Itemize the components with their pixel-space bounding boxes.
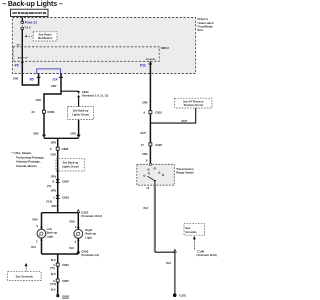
svg-text:C807: C807 xyxy=(62,279,69,283)
svg-text:GRN: GRN xyxy=(13,78,19,81)
svg-text:(*1): (*1) xyxy=(47,184,52,188)
svg-text:7.5 A: 7.5 A xyxy=(24,26,30,30)
svg-text:BLK: BLK xyxy=(166,262,171,265)
svg-text:See Back-up: See Back-up xyxy=(73,109,89,113)
svg-text:See: See xyxy=(185,226,190,230)
svg-text:HOT IN ON (II) AND START (III): HOT IN ON (II) AND START (III) xyxy=(13,12,47,15)
svg-text:C831: C831 xyxy=(62,263,69,267)
svg-text:GRN: GRN xyxy=(51,85,57,88)
svg-text:Transmission: Transmission xyxy=(176,167,194,171)
svg-text:REVERSE: REVERSE xyxy=(146,59,156,61)
svg-text:GRN: GRN xyxy=(51,205,57,208)
svg-text:BLK: BLK xyxy=(144,207,149,210)
svg-text:C896: C896 xyxy=(62,147,69,151)
svg-text:(Terminals 13-24): (Terminals 13-24) xyxy=(196,254,217,257)
svg-text:Box: Box xyxy=(198,28,204,32)
svg-text:BLK: BLK xyxy=(51,289,56,292)
svg-text:GRN: GRN xyxy=(51,141,57,144)
svg-text:24: 24 xyxy=(32,110,36,114)
svg-text:GRN: GRN xyxy=(142,101,148,104)
svg-text:Position Circuit: Position Circuit xyxy=(184,103,203,107)
svg-text:BLK: BLK xyxy=(51,259,56,262)
svg-text:Light: Light xyxy=(85,235,92,239)
svg-text:GRN: GRN xyxy=(51,154,57,157)
svg-text:17: 17 xyxy=(141,143,145,147)
svg-text:C806: C806 xyxy=(47,110,54,114)
svg-text:GRN: GRN xyxy=(51,175,57,178)
svg-text:(Terminals 5, 8, 11, 12): (Terminals 5, 8, 11, 12) xyxy=(82,94,109,97)
svg-text:(*5): (*5) xyxy=(50,266,55,270)
svg-text:– Back-up Lights –: – Back-up Lights – xyxy=(2,1,63,8)
svg-text:(Terminals 10-12): (Terminals 10-12) xyxy=(81,215,102,218)
svg-text:Grounds: Grounds xyxy=(185,230,197,234)
svg-text:Lights Circuit: Lights Circuit xyxy=(62,164,79,168)
svg-text:Left: Left xyxy=(47,227,52,231)
svg-text:BLK: BLK xyxy=(51,273,56,276)
svg-text:Range Switch: Range Switch xyxy=(176,171,194,175)
svg-text:GRN: GRN xyxy=(71,132,77,135)
svg-text:P5: P5 xyxy=(15,64,19,68)
svg-text:Fuse 21: Fuse 21 xyxy=(25,21,37,25)
svg-text:C106: C106 xyxy=(197,249,204,253)
svg-text:P22: P22 xyxy=(140,63,146,67)
svg-text:GRN: GRN xyxy=(32,218,38,221)
svg-text:See Power: See Power xyxy=(39,33,52,37)
svg-text:Light: Light xyxy=(47,234,54,238)
svg-text:C801: C801 xyxy=(155,111,162,115)
svg-text:(*15): (*15) xyxy=(50,282,56,286)
svg-text:Lights Circuit: Lights Circuit xyxy=(72,112,89,116)
svg-text:GRN: GRN xyxy=(51,190,57,193)
svg-text:See Grounds: See Grounds xyxy=(16,275,34,279)
svg-text:Back-up: Back-up xyxy=(85,232,96,236)
svg-text:BACK UP: BACK UP xyxy=(18,56,29,59)
svg-text:GRN: GRN xyxy=(69,221,75,224)
svg-text:C897: C897 xyxy=(62,179,69,183)
svg-text:Canada, Mexico: Canada, Mexico xyxy=(16,164,37,168)
svg-text:G802: G802 xyxy=(62,294,69,298)
svg-text:See Back-up: See Back-up xyxy=(63,161,79,165)
svg-text:J14: J14 xyxy=(52,77,58,81)
svg-text:Right: Right xyxy=(85,228,92,232)
svg-text:C320: C320 xyxy=(155,143,162,147)
svg-text:C891: C891 xyxy=(62,195,69,199)
svg-text:WHT: WHT xyxy=(182,120,188,123)
svg-text:GRN: GRN xyxy=(142,153,148,156)
svg-text:MICU: MICU xyxy=(161,46,170,50)
svg-text:GRN: GRN xyxy=(36,99,42,102)
svg-text:Distribution: Distribution xyxy=(38,36,53,40)
svg-text:See A/T Reverse: See A/T Reverse xyxy=(183,99,204,103)
svg-text:(*14): (*14) xyxy=(46,200,52,204)
svg-text:Back-up: Back-up xyxy=(47,231,58,235)
svg-text:C922: C922 xyxy=(82,90,89,94)
svg-text:(Terminals 1-6): (Terminals 1-6) xyxy=(81,254,99,257)
svg-text:N5: N5 xyxy=(30,77,34,81)
svg-text:BLK: BLK xyxy=(31,246,36,249)
svg-text:GRN: GRN xyxy=(33,132,39,135)
svg-text:WHT: WHT xyxy=(141,132,147,135)
svg-text:BLK: BLK xyxy=(69,247,74,250)
svg-text:G101: G101 xyxy=(179,294,186,298)
